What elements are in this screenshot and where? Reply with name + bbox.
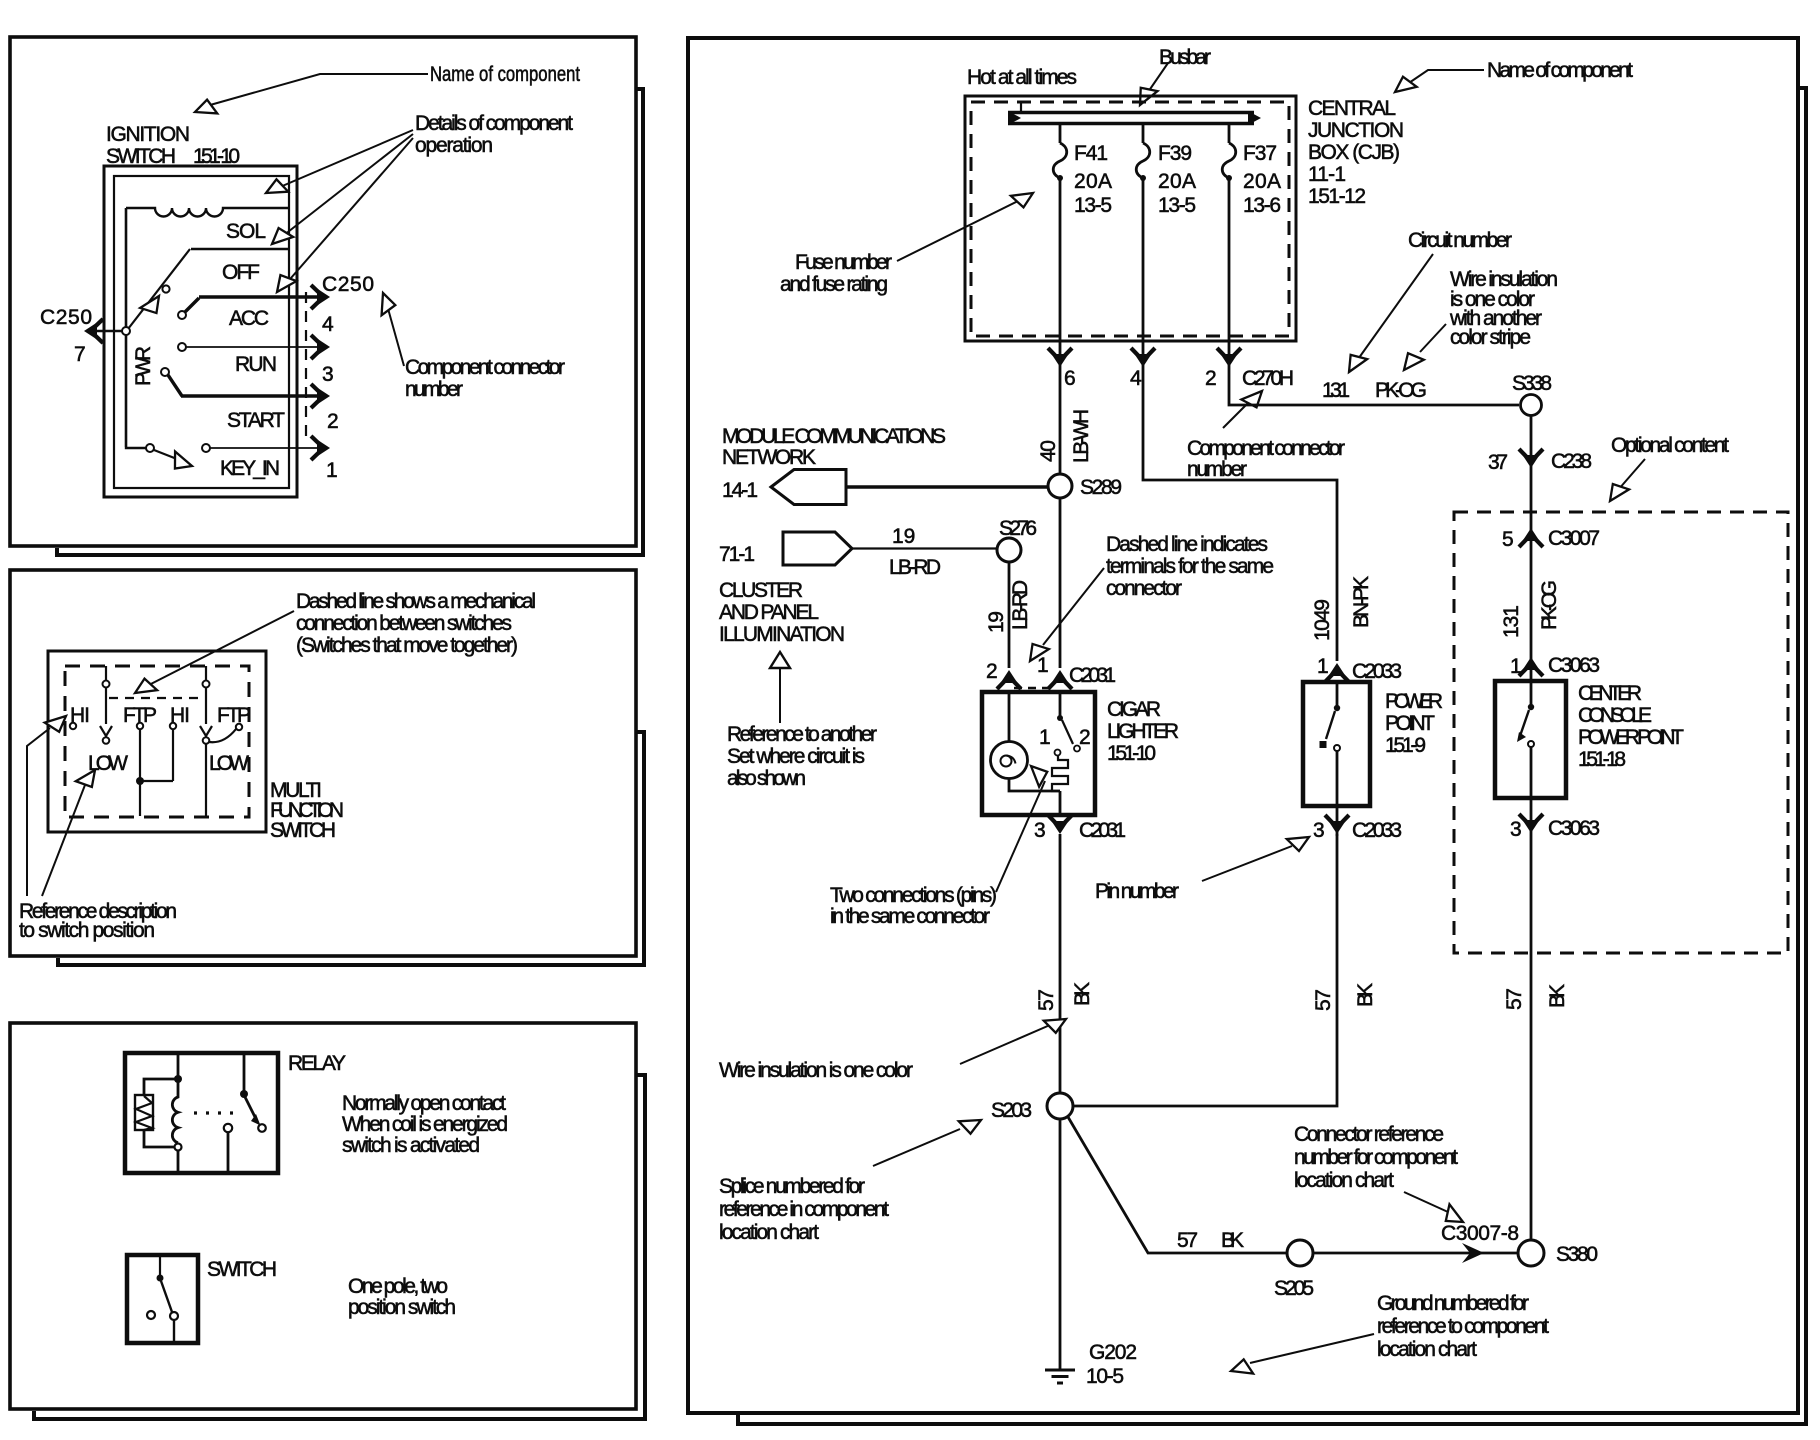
KEY_IN pivot circle: [146, 444, 154, 452]
FTP1 wire down: [139, 729, 141, 779]
svg-text:5: 5: [1502, 528, 1514, 551]
left switch pivot circle: [103, 681, 110, 688]
splice S203: [1047, 1093, 1073, 1119]
svg-text:BK: BK: [1354, 983, 1377, 1007]
svg-text:151-9: 151-9: [1385, 734, 1426, 757]
svg-text:number: number: [405, 378, 463, 401]
svg-text:F37: F37: [1243, 142, 1277, 165]
C2031 pin 1 arrow: [1048, 670, 1072, 689]
svg-text:Name of component: Name of component: [430, 63, 580, 86]
svg-text:POWER POINT: POWER POINT: [1578, 726, 1684, 749]
relay blade arrowhead: [251, 1114, 261, 1126]
svg-text:Connector reference: Connector reference: [1294, 1123, 1444, 1146]
RUN contact circle: [178, 343, 186, 351]
svg-text:number: number: [1187, 458, 1247, 481]
svg-text:3: 3: [322, 363, 334, 386]
svg-text:Normally open contact: Normally open contact: [342, 1092, 506, 1115]
svg-text:BK: BK: [1071, 982, 1094, 1006]
cigar lamp bottom wire: [1009, 779, 1060, 792]
svg-text:4: 4: [1130, 367, 1142, 390]
svg-text:S203: S203: [991, 1099, 1032, 1122]
switch wire to bottom: [173, 1320, 175, 1343]
leader to lamp: [996, 781, 1045, 892]
svg-text:1: 1: [326, 459, 338, 482]
KEY_IN exit arrow: [311, 436, 330, 460]
relay coil: [172, 1081, 178, 1143]
svg-text:S380: S380: [1556, 1243, 1598, 1266]
cluster reference stem: [779, 668, 781, 723]
svg-text:4: 4: [322, 313, 334, 336]
leader to 131: [1356, 254, 1433, 362]
svg-text:in the same connector: in the same connector: [830, 905, 990, 928]
cc contact circle: [1528, 741, 1534, 747]
svg-text:F41: F41: [1074, 142, 1108, 165]
F41 exit arrow: [1048, 348, 1072, 367]
svg-text:2: 2: [1205, 367, 1217, 390]
cc wire to S380: [1530, 835, 1533, 1240]
svg-text:20A: 20A: [1158, 170, 1196, 193]
svg-text:Hot at all times: Hot at all times: [967, 66, 1077, 89]
panel 1 page shadow: [57, 89, 643, 555]
svg-text:S338: S338: [1512, 372, 1552, 395]
cluster reference triangle: [770, 652, 790, 668]
fuse F39 bottom dot: [1140, 175, 1146, 181]
C3063 arrow: [1519, 657, 1543, 676]
svg-text:to switch position: to switch position: [19, 919, 155, 942]
svg-text:Ground numbered for: Ground numbered for: [1377, 1292, 1529, 1315]
relay mechanical dotted link: [194, 1111, 238, 1114]
leader to fuse: [897, 199, 1022, 261]
HI 2 terminal circle: [170, 723, 176, 729]
FTP terminal circle: [137, 723, 143, 729]
panel 2 page shadow: [58, 732, 644, 965]
svg-text:C2033: C2033: [1352, 819, 1402, 842]
svg-text:Splice numbered for: Splice numbered for: [719, 1175, 865, 1198]
leader to PK-OG: [1420, 324, 1446, 352]
left switch stub wire: [105, 666, 107, 681]
wire S205 to S380: [1313, 1252, 1518, 1255]
svg-text:131: 131: [1500, 605, 1523, 638]
svg-text:AND PANEL: AND PANEL: [719, 601, 819, 624]
relay switch pivot dot: [240, 1090, 248, 1098]
svg-text:Optional content: Optional content: [1611, 434, 1729, 457]
svg-text:C3063: C3063: [1548, 817, 1600, 840]
svg-text:Two connections (pins): Two connections (pins): [830, 884, 997, 907]
solenoid coil SOL: [126, 208, 289, 217]
ignition switch inner box: [114, 176, 289, 488]
svg-text:11-1: 11-1: [1308, 163, 1346, 186]
leader to optional box: [1618, 459, 1645, 490]
svg-text:13-5: 13-5: [1158, 194, 1196, 217]
svg-text:ACC: ACC: [229, 307, 269, 330]
C3063 bottom arrow: [1519, 814, 1543, 833]
switch blade tip circle: [170, 1312, 178, 1320]
svg-text:19: 19: [892, 525, 915, 548]
network reference flag 14-1: [771, 470, 846, 505]
cigar switch feed wire: [1059, 692, 1062, 716]
wire F37 to S338: [1229, 341, 1519, 405]
panel 2 border frame: [10, 570, 636, 956]
svg-text:151-12: 151-12: [1308, 185, 1366, 208]
svg-text:LB-RD: LB-RD: [1009, 580, 1032, 630]
FTP 2 terminal circle: [236, 724, 242, 730]
START exit arrow: [311, 384, 330, 408]
svg-text:19: 19: [985, 611, 1008, 633]
svg-text:BOX (CJB): BOX (CJB): [1308, 141, 1400, 164]
relay resistor bottom wire: [144, 1130, 174, 1147]
C2033 arrow: [1325, 663, 1349, 682]
leader to name of component: [203, 74, 428, 107]
C2031 bottom arrow: [1048, 815, 1072, 834]
splice S338: [1521, 395, 1542, 416]
fuse F41 wire in box: [1059, 178, 1062, 341]
svg-text:POWER: POWER: [1385, 690, 1443, 713]
svg-text:CLUSTER: CLUSTER: [719, 579, 803, 602]
cigar output wire: [1059, 791, 1062, 815]
svg-text:connector: connector: [1106, 577, 1182, 600]
busbar left end arrow: [1008, 111, 1021, 125]
junction dot: [136, 777, 144, 785]
svg-text:FTP: FTP: [217, 704, 251, 727]
relay box: [125, 1053, 278, 1173]
svg-text:37: 37: [1488, 451, 1508, 474]
svg-text:terminals for the same: terminals for the same: [1106, 555, 1274, 578]
ACC exit arrow: [311, 285, 330, 309]
svg-text:C3007: C3007: [1548, 527, 1600, 550]
ignition switch outer box: [104, 166, 297, 497]
C3007 arrow: [1519, 528, 1543, 547]
svg-text:LB-RD: LB-RD: [889, 556, 941, 579]
cigar switch blade: [1062, 720, 1073, 744]
svg-text:Dashed line indicates: Dashed line indicates: [1106, 533, 1268, 556]
fuse F37 element: [1222, 143, 1236, 178]
wire F41 to S289 and cigar lighter: [1059, 341, 1062, 668]
svg-text:IGNITION: IGNITION: [106, 123, 190, 146]
svg-text:CIGAR: CIGAR: [1107, 698, 1161, 721]
C250 wire to left: [88, 330, 122, 332]
leader to connector dashes: [1043, 568, 1104, 645]
pp wire down: [1336, 751, 1339, 836]
svg-text:LIGHTER: LIGHTER: [1107, 720, 1179, 743]
F39 exit arrow: [1131, 348, 1155, 367]
wire flag to S289: [846, 485, 1048, 488]
right blade contact circle: [203, 737, 210, 744]
svg-text:Wire insulation is one color: Wire insulation is one color: [719, 1059, 913, 1082]
cc wire down: [1530, 747, 1533, 835]
svg-text:6: 6: [1064, 367, 1076, 390]
svg-text:1049: 1049: [1311, 599, 1334, 641]
cc switch pivot dot: [1528, 704, 1534, 710]
wire cigar to S203: [1059, 834, 1062, 1093]
link wire FTP1 to HI2: [140, 729, 173, 781]
busbar right end arrow: [1248, 111, 1261, 125]
KEY_IN blade arrowhead: [169, 451, 194, 473]
pp switch pivot dot: [1334, 705, 1340, 711]
svg-text:OFF: OFF: [222, 261, 260, 284]
svg-text:LOW: LOW: [209, 752, 249, 775]
svg-text:S276: S276: [999, 517, 1037, 540]
C238 arrow: [1519, 449, 1543, 468]
svg-text:C3063: C3063: [1548, 654, 1600, 677]
svg-text:NETWORK: NETWORK: [722, 446, 816, 469]
svg-text:Pin number: Pin number: [1095, 880, 1179, 903]
panel 4 border frame: [688, 38, 1798, 1413]
panel 3 page shadow: [34, 1075, 645, 1419]
optional content dashed box: [1454, 512, 1788, 953]
fuse F37 wire in box: [1228, 178, 1231, 341]
same-connector dashed link: [1014, 687, 1056, 689]
fuse F39 top stub: [1142, 125, 1145, 143]
fuse F41 top stub: [1059, 125, 1062, 143]
leader to pin 3: [1202, 846, 1292, 881]
switch blade PWR to OFF: [128, 249, 190, 329]
svg-text:57: 57: [1177, 1229, 1198, 1252]
leader 2 to OFF: [279, 134, 413, 239]
right switch pivot circle: [203, 681, 210, 688]
leader to connector: [387, 305, 404, 366]
central junction box outline: [965, 96, 1296, 341]
multifunction switch dashed box: [65, 666, 249, 817]
svg-text:S289: S289: [1080, 476, 1122, 499]
switch blade: [161, 1281, 172, 1312]
svg-text:PK-OG: PK-OG: [1538, 580, 1561, 630]
open arrowhead at name leader: [193, 98, 218, 119]
busbar: [1008, 113, 1254, 124]
RUN wire: [186, 346, 323, 348]
KEY_IN contact circle: [202, 444, 210, 452]
leader 1 to coil: [273, 130, 413, 190]
svg-text:reference in component: reference in component: [719, 1198, 889, 1221]
pp switch feed stub: [1336, 682, 1339, 706]
svg-text:connection between switches: connection between switches: [296, 612, 512, 635]
right blade open arrowhead: [200, 726, 212, 736]
svg-text:10-5: 10-5: [1086, 1365, 1124, 1388]
svg-text:57: 57: [1035, 989, 1058, 1011]
svg-text:C270H: C270H: [1242, 367, 1294, 390]
START wire: [168, 375, 323, 396]
svg-text:151-18: 151-18: [1578, 748, 1626, 771]
svg-text:Circuit number: Circuit number: [1408, 229, 1512, 252]
START contact circle: [161, 368, 169, 376]
multifunction switch box: [48, 651, 266, 832]
switch alternate contact circle: [147, 1311, 155, 1319]
svg-text:position switch: position switch: [348, 1296, 456, 1319]
cc switch blade: [1520, 710, 1529, 736]
svg-text:G202: G202: [1089, 1341, 1137, 1364]
wire to dashed bottom: [139, 781, 141, 816]
wire S276 down to cigar lighter: [1008, 562, 1011, 668]
left blade contact circle: [103, 737, 110, 744]
svg-text:switch is activated: switch is activated: [342, 1134, 480, 1157]
relay resistor box: [135, 1095, 153, 1130]
relay coil bottom wire: [177, 1151, 180, 1173]
panel 3 border frame: [10, 1023, 636, 1409]
svg-text:location chart: location chart: [719, 1221, 819, 1244]
busbar feed stub: [1020, 103, 1022, 111]
leader 1 to HI: [27, 728, 50, 896]
svg-text:RELAY: RELAY: [288, 1052, 346, 1075]
svg-text:Set where circuit is: Set where circuit is: [727, 745, 865, 768]
fuse F39 element: [1136, 143, 1150, 178]
KEY_IN blade: [154, 450, 182, 461]
svg-text:C3007-8: C3007-8: [1441, 1222, 1519, 1245]
cigar terminal circle 2: [1074, 746, 1080, 752]
leader to C3007-8: [1404, 1192, 1448, 1212]
connector dashed line: [305, 292, 307, 443]
cigar lamp feed wire: [1008, 692, 1011, 741]
PWR pivot circle: [122, 327, 130, 335]
leader to busbar: [1146, 63, 1168, 95]
switch feed wire: [159, 1255, 161, 1276]
svg-text:POINT: POINT: [1385, 712, 1435, 735]
OFF contact wire: [191, 248, 289, 250]
svg-text:Dashed line shows a mechanical: Dashed line shows a mechanical: [296, 590, 536, 613]
svg-text:SWITCH: SWITCH: [270, 819, 336, 842]
svg-text:3: 3: [1313, 819, 1325, 842]
relay stationary contact circle: [224, 1124, 232, 1132]
blade contact circle: [162, 285, 169, 292]
svg-text:Name of component: Name of component: [1487, 59, 1633, 82]
svg-text:MODULE COMMUNICATIONS: MODULE COMMUNICATIONS: [722, 425, 946, 448]
svg-text:START: START: [227, 409, 285, 432]
svg-text:Component connector: Component connector: [405, 356, 565, 379]
ACC contact circle: [178, 311, 186, 319]
right switch blade: [205, 688, 207, 724]
svg-text:location chart: location chart: [1377, 1338, 1477, 1361]
svg-text:2: 2: [986, 660, 998, 683]
cigar lamp element glyph: [1001, 756, 1012, 767]
left blade open arrowhead: [100, 726, 112, 736]
cigar lamp circle: [991, 742, 1028, 779]
svg-text:Component connector: Component connector: [1187, 437, 1345, 460]
svg-text:C250: C250: [322, 273, 374, 296]
wire F39 to power point: [1143, 341, 1337, 661]
svg-text:1: 1: [1039, 726, 1051, 749]
fuse F41 bottom dot: [1057, 175, 1063, 181]
svg-text:S205: S205: [1274, 1277, 1314, 1300]
relay junction dot: [174, 1075, 182, 1083]
svg-text:PWR: PWR: [132, 346, 155, 386]
svg-text:13-6: 13-6: [1243, 194, 1281, 217]
fuse F39 wire in box: [1142, 178, 1145, 341]
svg-text:Fuse number: Fuse number: [795, 251, 892, 274]
mechanical dashed link: [109, 697, 200, 699]
fuse F37 bottom dot: [1226, 175, 1232, 181]
RUN exit arrow: [311, 335, 330, 359]
relay resistor branch wire: [144, 1079, 178, 1095]
KEY_IN pivot wire: [126, 447, 146, 448]
cigar switch pivot dot: [1057, 715, 1063, 721]
annotation arrow to S203: [873, 1129, 960, 1166]
relay switch blade: [245, 1097, 257, 1121]
central junction box dashed outline: [971, 102, 1289, 336]
HI terminal circle: [70, 723, 76, 729]
F37 exit arrow: [1217, 348, 1241, 367]
switch box: [127, 1255, 198, 1343]
svg-text:151-10: 151-10: [1107, 742, 1156, 765]
svg-text:number for component: number for component: [1294, 1146, 1458, 1169]
svg-text:1: 1: [1037, 654, 1049, 677]
connector C3007-8 inline arrow: [1462, 1243, 1484, 1263]
left switch blade: [105, 688, 107, 724]
power point box: [1303, 682, 1370, 806]
panel 4 page shadow: [738, 88, 1806, 1424]
relay switch feed wire: [243, 1053, 246, 1092]
leader to BK wire: [960, 1025, 1050, 1064]
leader to mechanical link: [143, 611, 294, 688]
svg-text:C2031: C2031: [1079, 819, 1126, 842]
relay coil feed wire: [177, 1053, 180, 1077]
svg-text:2: 2: [327, 410, 339, 433]
relay coil bottom circle: [175, 1144, 182, 1151]
svg-text:131: 131: [1322, 379, 1350, 402]
center console power point box: [1495, 681, 1566, 798]
ACC wire: [185, 297, 323, 312]
C250 left exit arrow: [84, 319, 103, 343]
C2033 bottom arrow: [1325, 815, 1349, 834]
svg-text:(Switches that move together): (Switches that move together): [296, 634, 518, 657]
svg-text:57: 57: [1312, 989, 1335, 1011]
cc blade arrowhead: [1517, 732, 1526, 742]
svg-text:CENTRAL: CENTRAL: [1308, 97, 1396, 120]
blade motion arrowhead: [140, 291, 166, 317]
svg-text:color stripe: color stripe: [1450, 326, 1531, 349]
fuse F37 top stub: [1228, 125, 1231, 143]
relay blade tip circle: [258, 1124, 266, 1132]
splice diagonal S203 to S205: [1068, 1117, 1287, 1253]
svg-text:SWITCH: SWITCH: [207, 1258, 277, 1281]
svg-text:2: 2: [1079, 726, 1091, 749]
svg-text:When coil is energized: When coil is energized: [342, 1113, 508, 1136]
svg-text:KEY_IN: KEY_IN: [220, 457, 280, 480]
splice S276: [997, 538, 1021, 562]
pp contact circle: [1334, 745, 1340, 751]
svg-text:ILLUMINATION: ILLUMINATION: [719, 623, 845, 646]
splice S380: [1518, 1240, 1544, 1266]
cc switch feed stub: [1530, 681, 1533, 705]
svg-text:JUNCTION: JUNCTION: [1308, 119, 1404, 142]
circuit reference flag 71-1: [783, 532, 852, 565]
svg-text:PK-OG: PK-OG: [1375, 379, 1427, 402]
curve FTP2 to right blade: [209, 729, 236, 742]
svg-text:57: 57: [1503, 988, 1526, 1010]
switch pivot dot: [157, 1275, 164, 1282]
svg-text:BN-PK: BN-PK: [1350, 576, 1373, 628]
svg-text:location chart: location chart: [1294, 1169, 1394, 1192]
svg-text:71-1: 71-1: [719, 543, 755, 566]
svg-text:SOL: SOL: [226, 220, 266, 243]
leader 2 to LOW: [42, 785, 85, 896]
svg-text:C2033: C2033: [1352, 660, 1402, 683]
wire S203 to ground: [1059, 1119, 1062, 1369]
pp switch blade: [1326, 711, 1335, 739]
svg-text:1: 1: [1317, 655, 1329, 678]
leader to ground: [1250, 1334, 1374, 1363]
svg-text:Details of component: Details of component: [415, 112, 573, 135]
svg-text:13-5: 13-5: [1074, 194, 1112, 217]
svg-text:operation: operation: [415, 134, 493, 157]
splice S289: [1048, 474, 1072, 498]
svg-text:3: 3: [1510, 818, 1522, 841]
svg-text:BK: BK: [1546, 984, 1569, 1008]
panel 1 border frame: [10, 37, 636, 546]
leader to CJB name: [1403, 70, 1484, 87]
svg-text:C250: C250: [40, 306, 92, 329]
svg-text:20A: 20A: [1074, 170, 1112, 193]
svg-text:3: 3: [1034, 819, 1046, 842]
svg-text:and fuse rating: and fuse rating: [780, 273, 888, 296]
cigar heater element: [1052, 756, 1068, 792]
